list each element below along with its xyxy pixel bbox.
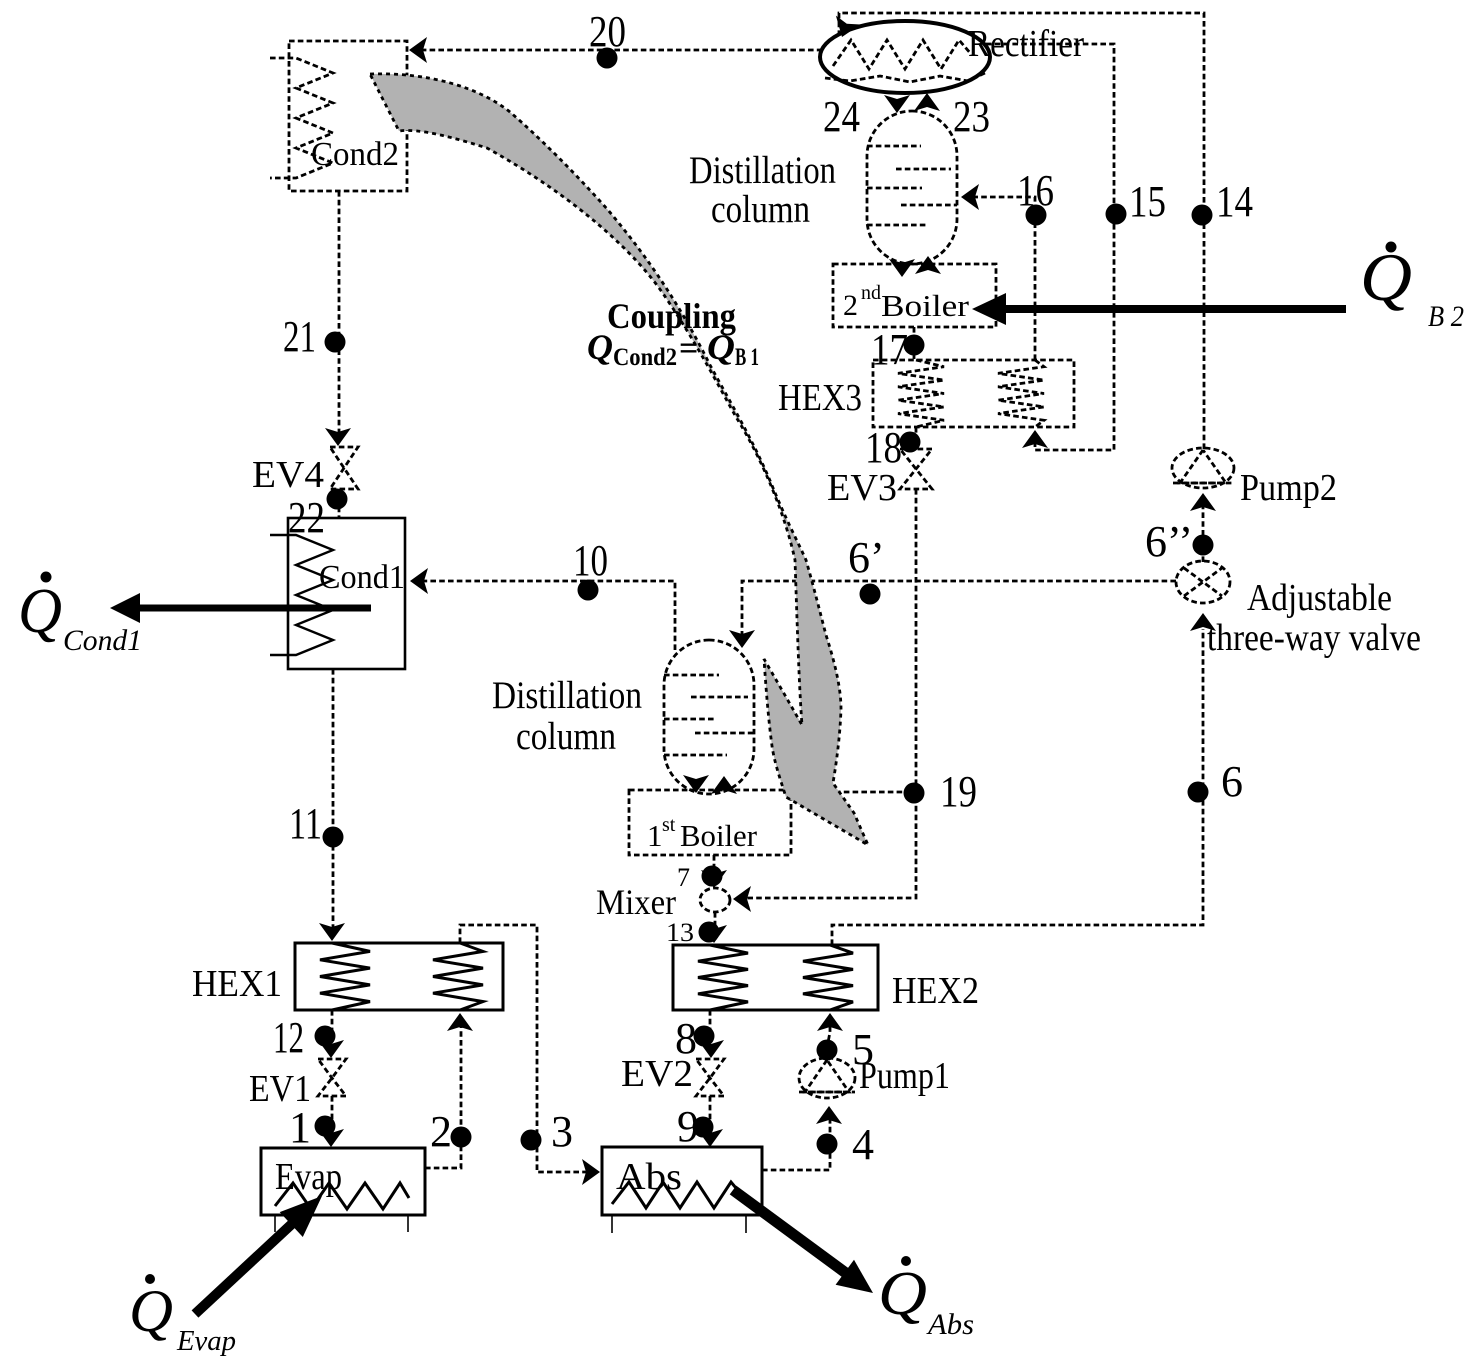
svg-text:7: 7 [677,863,690,892]
svg-text:1: 1 [289,1103,311,1152]
svg-text:15: 15 [1129,177,1166,226]
svg-text:column: column [516,715,616,758]
svg-text:Boiler: Boiler [680,818,758,853]
svg-text:Distillation: Distillation [492,674,642,717]
svg-text:Abs: Abs [616,1156,682,1198]
svg-text:9: 9 [677,1102,699,1151]
svg-text:st: st [662,814,676,836]
svg-text:11: 11 [289,799,322,848]
svg-text:14: 14 [1216,177,1253,226]
svg-text:EV3: EV3 [827,467,897,509]
svg-text:HEX1: HEX1 [192,963,282,1005]
svg-text:17: 17 [871,325,908,374]
svg-text:Mixer: Mixer [596,882,676,922]
svg-text:12: 12 [273,1013,304,1062]
svg-text:Boiler: Boiler [881,288,970,323]
svg-text:22: 22 [288,493,325,542]
svg-text:Rectifier: Rectifier [968,23,1084,65]
svg-text:19: 19 [940,767,977,816]
svg-text:Pump2: Pump2 [1240,467,1337,509]
svg-text:Q: Q [18,575,62,646]
svg-text:HEX2: HEX2 [892,970,979,1012]
svg-text:Q: Q [587,327,613,367]
svg-text:column: column [711,188,810,231]
svg-text:HEX3: HEX3 [778,377,862,419]
svg-text:6’: 6’ [848,533,885,582]
svg-text:three-way valve: three-way valve [1207,617,1421,659]
svg-text:21: 21 [283,312,316,361]
svg-text:20: 20 [589,7,626,56]
svg-text:EV2: EV2 [621,1053,693,1095]
svg-text:1: 1 [647,818,663,853]
svg-text:B 1: B 1 [735,344,759,371]
svg-text:Abs: Abs [926,1308,974,1341]
svg-text:18: 18 [865,423,902,472]
svg-text:Cond2: Cond2 [311,136,399,173]
svg-text:B 2: B 2 [1428,300,1464,333]
svg-text:16: 16 [1017,166,1054,215]
svg-text:6: 6 [1221,757,1243,806]
svg-text:nd: nd [861,282,881,304]
svg-text:Pump1: Pump1 [859,1055,950,1097]
svg-text:24: 24 [823,92,860,141]
svg-text:6’’: 6’’ [1145,517,1193,566]
svg-text:2: 2 [843,289,858,322]
svg-text:4: 4 [852,1120,874,1169]
svg-text:Cond1: Cond1 [319,559,405,596]
svg-text:13: 13 [666,918,694,947]
svg-text:23: 23 [953,92,990,141]
svg-text:Cond1: Cond1 [63,624,142,657]
svg-text:3: 3 [551,1107,573,1156]
svg-text:2: 2 [430,1107,452,1156]
svg-text:EV4: EV4 [252,454,324,496]
svg-text:Distillation: Distillation [689,149,836,192]
svg-text:Q: Q [129,1278,173,1344]
svg-text:=: = [679,330,698,367]
svg-text:Q: Q [707,327,735,367]
svg-text:10: 10 [573,536,608,585]
svg-text:Cond2: Cond2 [613,344,677,371]
svg-text:Adjustable: Adjustable [1247,577,1392,619]
svg-text:Evap: Evap [176,1326,236,1357]
svg-text:Evap: Evap [275,1156,342,1198]
svg-text:Q: Q [878,1260,927,1328]
svg-text:Q: Q [1360,239,1412,315]
